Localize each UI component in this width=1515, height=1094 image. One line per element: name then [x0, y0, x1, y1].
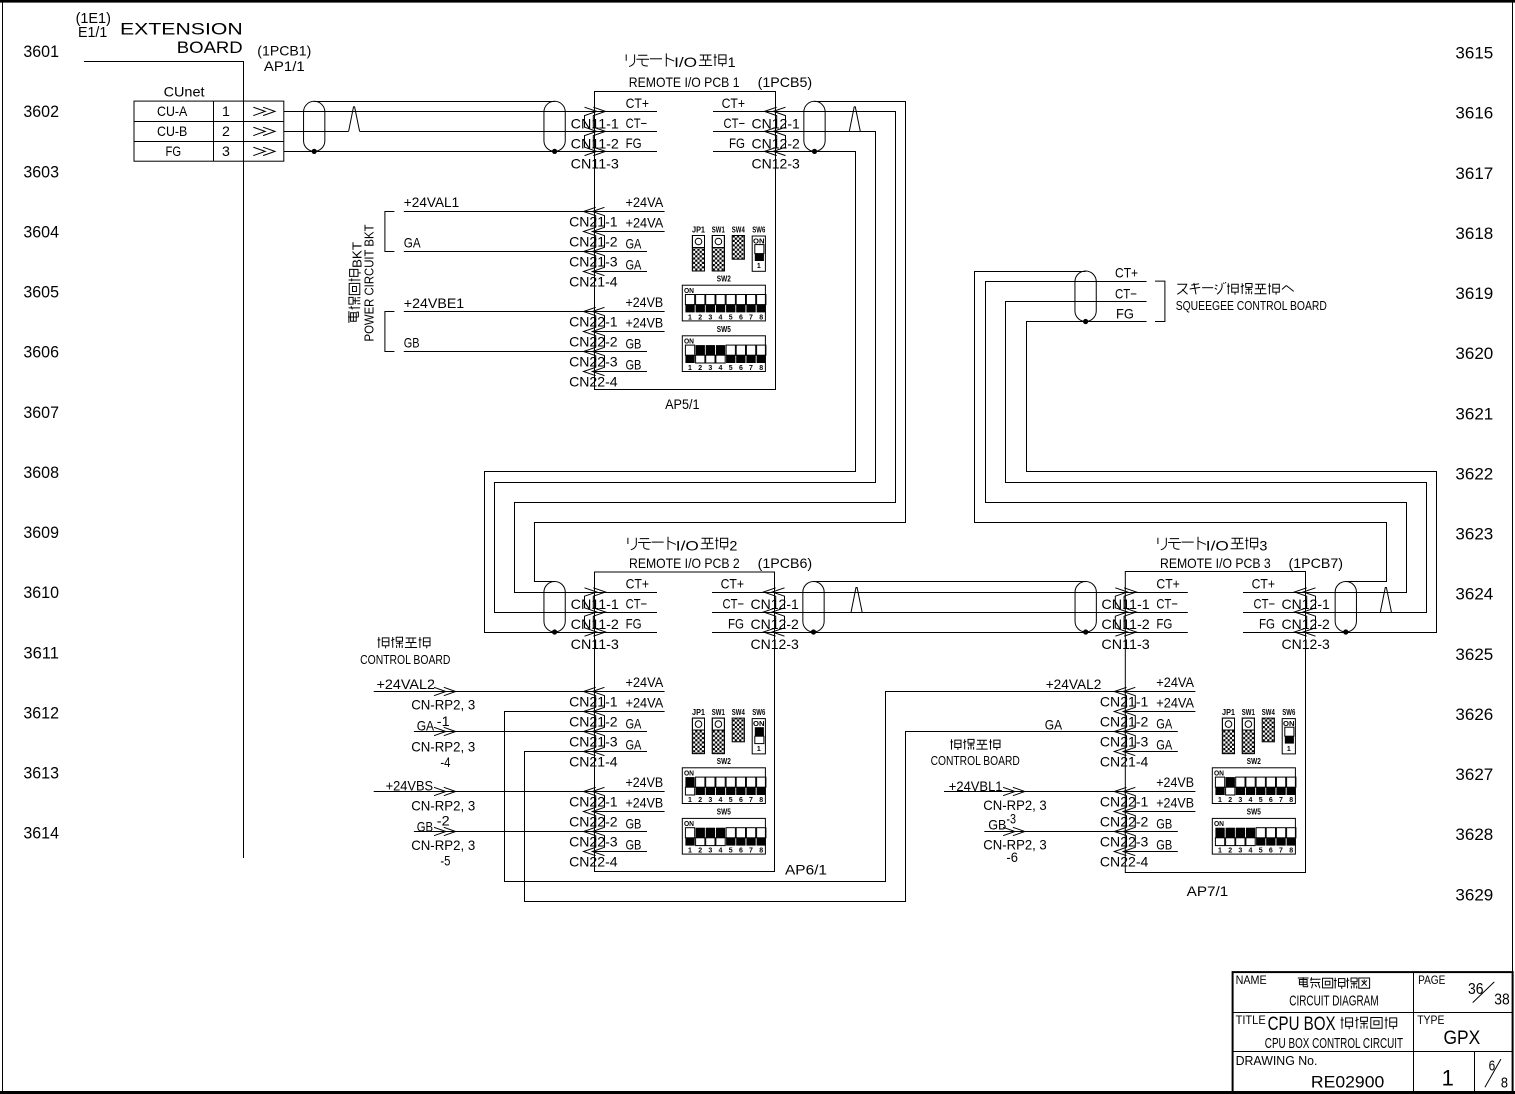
svg-text:8: 8 [759, 848, 763, 855]
svg-text:2: 2 [729, 538, 737, 554]
svg-text:CT+: CT+ [722, 95, 745, 111]
svg-text:NAME: NAME [1236, 973, 1267, 987]
svg-text:CT−: CT− [626, 596, 648, 612]
connector CN22 PCB1 [592, 307, 604, 375]
wire CT- PCB2 CN12 to PCB3 CN11 [775, 612, 1126, 614]
svg-text:GA: GA [417, 717, 435, 733]
svg-text:-5: -5 [440, 853, 450, 869]
svg-text:3607: 3607 [23, 403, 59, 422]
svg-text:3614: 3614 [23, 824, 59, 843]
svg-text:AP5/1: AP5/1 [665, 396, 700, 412]
title block frame [1233, 972, 1513, 1093]
svg-text:CN21-3: CN21-3 [569, 254, 618, 270]
twisted pair symbol [851, 611, 862, 613]
svg-text:CT+: CT+ [1115, 264, 1138, 280]
svg-text:3: 3 [1238, 797, 1242, 804]
svg-text:3616: 3616 [1455, 104, 1493, 123]
svg-text:CN12-1: CN12-1 [751, 596, 800, 612]
rotated label POWER CIRCUIT BKT [362, 224, 376, 341]
svg-text:CU-B: CU-B [157, 123, 187, 139]
svg-text:CN22-4: CN22-4 [569, 374, 618, 390]
wire +24VAL2 daisy PCB2 CN21-2 to PCB3 CN21-1 [505, 692, 1126, 882]
svg-text:CN22-1: CN22-1 [569, 314, 618, 330]
shield oval at PCB2 CN11 [544, 582, 565, 633]
svg-text:GA: GA [626, 715, 642, 731]
wire CU-B to CN11-2 [284, 131, 595, 133]
label squeegee control board (Japanese) [1177, 284, 1187, 294]
shield oval at PCB3 CN12 [1335, 582, 1356, 633]
svg-text:GB: GB [1156, 815, 1172, 831]
wire +24VBE1 to CN22-1 [404, 311, 595, 313]
label seigyo kiban (Japanese) PCB2 [378, 637, 389, 648]
wire CT+ PCB2 CN12 to PCB3 CN11 [775, 592, 1126, 594]
svg-text:GB: GB [626, 836, 642, 852]
wire +24VBS to PCB2 CN22-1 [374, 791, 595, 793]
label seigyo kiban (Japanese) PCB3 [950, 739, 961, 750]
svg-text:(1PCB5): (1PCB5) [758, 74, 813, 90]
svg-text:ON: ON [684, 821, 694, 828]
connector CN22 PCB3 [1123, 787, 1135, 855]
svg-text:7: 7 [749, 314, 753, 321]
svg-text:CN12-2: CN12-2 [752, 135, 801, 151]
svg-text:CN11-1: CN11-1 [571, 115, 620, 131]
shield oval at PCB2 CN12 [803, 582, 824, 633]
svg-text:I/O: I/O [674, 54, 697, 70]
rotated label dengen kairo BKT (Japanese) [348, 242, 364, 323]
svg-text:TITLE: TITLE [1236, 1013, 1266, 1027]
svg-text:3617: 3617 [1455, 164, 1493, 183]
svg-text:CN12-1: CN12-1 [1282, 596, 1331, 612]
svg-text:GA: GA [626, 736, 642, 752]
svg-text:CN12-3: CN12-3 [751, 636, 800, 652]
svg-text:CN-RP2, 3: CN-RP2, 3 [411, 738, 475, 754]
svg-text:+24VAL1: +24VAL1 [404, 194, 460, 210]
svg-text:SW4: SW4 [1262, 708, 1275, 717]
svg-text:5: 5 [729, 314, 733, 321]
svg-text:AP1/1: AP1/1 [264, 58, 305, 74]
connector CN21 PCB1 [592, 207, 604, 275]
svg-text:CN22-3: CN22-3 [569, 834, 618, 850]
bracket CN22 power group [385, 312, 395, 352]
connector CN11 PCB3 [1115, 588, 1127, 636]
wire +24VAL1 to CN21-1 [404, 211, 595, 213]
svg-text:7: 7 [749, 848, 753, 855]
svg-text:CN-RP2, 3: CN-RP2, 3 [411, 696, 475, 712]
remote I/O PCB1 box 1PCB5 [595, 92, 776, 390]
svg-text:ON: ON [684, 771, 694, 778]
svg-text:CN21-1: CN21-1 [569, 694, 618, 710]
cable shield wire [314, 101, 554, 103]
svg-text:ON: ON [684, 339, 694, 346]
svg-text:+24VB: +24VB [626, 774, 664, 790]
svg-text:CT+: CT+ [721, 576, 744, 592]
svg-text:SW1: SW1 [1242, 708, 1255, 717]
svg-text:5: 5 [729, 365, 733, 372]
remote I/O PCB3 box 1PCB7 [1125, 572, 1305, 873]
wire CT- PCB1 CN12 to PCB2 CN11 [495, 132, 876, 613]
title remote I/O kiban 2 (Japanese) [628, 538, 636, 550]
svg-text:REMOTE I/O PCB 2: REMOTE I/O PCB 2 [629, 555, 740, 571]
svg-text:ON: ON [1214, 821, 1224, 828]
svg-text:CN12-3: CN12-3 [1282, 636, 1331, 652]
svg-text:3628: 3628 [1455, 825, 1493, 844]
table output arrows [253, 107, 265, 115]
svg-text:+24VA: +24VA [1156, 674, 1194, 690]
svg-text:CPU BOX: CPU BOX [1268, 1014, 1336, 1035]
svg-text:CN12-2: CN12-2 [751, 616, 800, 632]
svg-text:FG: FG [728, 616, 744, 632]
svg-text:CT+: CT+ [626, 95, 649, 111]
svg-text:SW6: SW6 [1282, 708, 1295, 717]
svg-text:CN12-2: CN12-2 [1282, 616, 1331, 632]
svg-text:REMOTE I/O PCB 3: REMOTE I/O PCB 3 [1160, 555, 1271, 571]
svg-text:TYPE: TYPE [1417, 1013, 1444, 1027]
svg-text:6: 6 [1269, 848, 1273, 855]
svg-text:1: 1 [1442, 1065, 1454, 1090]
svg-text:2: 2 [1228, 848, 1232, 855]
svg-text:-6: -6 [1006, 849, 1018, 865]
svg-text:JP1: JP1 [1222, 708, 1236, 717]
svg-text:SW1: SW1 [712, 226, 725, 235]
twisted pair symbol [849, 131, 860, 133]
svg-text:3602: 3602 [23, 102, 59, 121]
svg-text:3625: 3625 [1455, 645, 1493, 664]
svg-text:CN22-4: CN22-4 [1100, 854, 1149, 870]
svg-text:CPU BOX CONTROL CIRCUIT: CPU BOX CONTROL CIRCUIT [1265, 1035, 1403, 1052]
CN21 internal stubs PCB3 [1125, 691, 1195, 693]
svg-text:BOARD: BOARD [177, 38, 243, 57]
svg-text:+24VB: +24VB [626, 315, 664, 331]
svg-text:GB: GB [404, 334, 420, 350]
svg-text:RE02900: RE02900 [1311, 1072, 1384, 1091]
svg-text:1: 1 [1287, 746, 1291, 753]
wire CU-A to CN11-1 [284, 111, 595, 113]
svg-text:CT−: CT− [724, 115, 746, 131]
CN11 internal stubs PCB1 [595, 111, 658, 113]
svg-text:3626: 3626 [1455, 705, 1493, 724]
svg-text:4: 4 [1249, 848, 1253, 855]
svg-text:1: 1 [222, 103, 230, 119]
svg-text:(1PCB6): (1PCB6) [758, 555, 813, 571]
CN12 internal stubs PCB3 [1243, 592, 1306, 594]
svg-text:3624: 3624 [1455, 585, 1493, 604]
shield wire PCB1-PCB2 [535, 102, 906, 582]
svg-text:EXTENSION: EXTENSION [120, 19, 243, 38]
svg-text:+24VA: +24VA [626, 215, 664, 231]
svg-text:7: 7 [749, 797, 753, 804]
svg-text:7: 7 [749, 365, 753, 372]
svg-text:3629: 3629 [1455, 885, 1493, 904]
svg-text:3601: 3601 [23, 42, 59, 61]
wire GB to PCB3 CN22-3 [984, 831, 1125, 833]
bracket squeegee cable [1155, 281, 1165, 321]
svg-text:CT−: CT− [1115, 285, 1137, 301]
svg-text:CN21-2: CN21-2 [1100, 714, 1149, 730]
svg-text:CT−: CT− [1254, 596, 1276, 612]
svg-text:3612: 3612 [23, 703, 59, 722]
svg-text:8: 8 [759, 314, 763, 321]
svg-text:CUnet: CUnet [164, 83, 205, 99]
svg-text:+24VB: +24VB [626, 294, 664, 310]
svg-text:1: 1 [688, 797, 692, 804]
svg-text:SW4: SW4 [732, 226, 745, 235]
svg-text:CN22-4: CN22-4 [569, 854, 618, 870]
svg-text:6: 6 [739, 314, 743, 321]
svg-text:SW4: SW4 [732, 708, 745, 717]
svg-text:DRAWING No.: DRAWING No. [1236, 1053, 1318, 1068]
svg-text:ON: ON [1214, 771, 1224, 778]
svg-text:5: 5 [1259, 848, 1263, 855]
svg-text:2: 2 [222, 123, 230, 139]
svg-text:CN21-4: CN21-4 [1100, 754, 1149, 770]
svg-text:GA: GA [1156, 715, 1172, 731]
svg-text:GA: GA [1156, 736, 1172, 752]
CN21 internal stubs PCB2 [595, 691, 665, 693]
svg-text:2: 2 [1228, 797, 1232, 804]
svg-text:8: 8 [1289, 797, 1293, 804]
svg-text:+24VB: +24VB [626, 795, 664, 811]
svg-text:GB: GB [626, 815, 642, 831]
svg-text:3610: 3610 [23, 583, 59, 602]
svg-text:SW1: SW1 [712, 708, 725, 717]
svg-text:3622: 3622 [1455, 464, 1493, 483]
svg-text:3618: 3618 [1455, 224, 1493, 243]
svg-text:4: 4 [719, 314, 723, 321]
svg-text:AP7/1: AP7/1 [1187, 883, 1229, 899]
svg-text:1: 1 [688, 848, 692, 855]
connector CN21 PCB2 [592, 687, 604, 755]
svg-text:CN21-4: CN21-4 [569, 754, 618, 770]
connector CN11 PCB1 [585, 107, 597, 155]
svg-text:REMOTE I/O PCB 1: REMOTE I/O PCB 1 [629, 74, 740, 90]
svg-text:CT+: CT+ [1156, 576, 1179, 592]
svg-text:4: 4 [1249, 797, 1253, 804]
svg-text:5: 5 [1259, 797, 1263, 804]
twisted pair symbol [1380, 611, 1391, 613]
svg-text:CN22-1: CN22-1 [1100, 794, 1149, 810]
wire GA daisy PCB2 CN21-4 to PCB3 CN21-3 [525, 732, 1126, 902]
svg-text:CN22-2: CN22-2 [569, 334, 618, 350]
CN11 internal stubs PCB3 [1125, 592, 1188, 594]
svg-text:+24VAL2: +24VAL2 [1046, 676, 1102, 692]
svg-text:1: 1 [728, 54, 736, 70]
svg-text:CU-A: CU-A [157, 103, 188, 119]
svg-text:3: 3 [708, 314, 712, 321]
svg-text:3: 3 [1259, 538, 1267, 554]
shield wire PCB2-PCB3 [814, 581, 1086, 583]
CN22 internal stubs PCB2 [595, 791, 665, 793]
wire GB to PCB2 CN22-3 [414, 831, 595, 833]
svg-text:CN12-1: CN12-1 [752, 115, 801, 131]
svg-text:I/O: I/O [1206, 538, 1229, 554]
svg-text:3627: 3627 [1455, 765, 1493, 784]
junction dot shield-FG [312, 149, 317, 154]
svg-text:3608: 3608 [23, 463, 59, 482]
title remote I/O kiban 3 (Japanese) [1158, 538, 1166, 550]
svg-text:CN22-3: CN22-3 [569, 354, 618, 370]
svg-text:1: 1 [688, 365, 692, 372]
svg-text:CN11-3: CN11-3 [571, 636, 620, 652]
connector CN12 PCB3 [1303, 588, 1315, 636]
svg-text:FG: FG [626, 135, 642, 151]
svg-text:GA: GA [1045, 717, 1063, 733]
svg-text:3611: 3611 [23, 643, 59, 662]
wire FG PCB2 CN12 to PCB3 CN11 [775, 632, 1126, 634]
svg-text:CN11-1: CN11-1 [571, 596, 620, 612]
CN12 internal stubs PCB2 [712, 592, 775, 594]
svg-text:3: 3 [708, 848, 712, 855]
svg-text:CN11-1: CN11-1 [1101, 596, 1150, 612]
CUnet terminal table [134, 101, 284, 161]
svg-text:CN12-3: CN12-3 [752, 155, 801, 171]
svg-text:3606: 3606 [23, 343, 59, 362]
svg-text:4: 4 [719, 365, 723, 372]
svg-text:2: 2 [698, 314, 702, 321]
svg-text:3: 3 [708, 797, 712, 804]
CN22 internal stubs PCB3 [1125, 791, 1195, 793]
svg-text:-3: -3 [1006, 811, 1016, 827]
svg-text:-2: -2 [437, 813, 450, 829]
svg-text:GA: GA [404, 235, 421, 251]
svg-text:CN21-1: CN21-1 [1100, 694, 1149, 710]
svg-text:+24VB: +24VB [1156, 774, 1194, 790]
svg-text:CN21-4: CN21-4 [569, 274, 618, 290]
connector CN12 PCB2 [772, 588, 784, 636]
svg-text:38: 38 [1494, 992, 1510, 1009]
svg-text:CONTROL BOARD: CONTROL BOARD [360, 653, 450, 667]
svg-text:I/O: I/O [676, 538, 699, 554]
remote I/O PCB2 box 1PCB6 [595, 572, 775, 872]
connector CN12 PCB1 [773, 107, 785, 155]
svg-text:5: 5 [729, 797, 733, 804]
svg-text:3623: 3623 [1455, 525, 1493, 544]
junction dot shield-FG [552, 149, 557, 154]
svg-text:FG: FG [1116, 305, 1134, 321]
svg-text:+24VB: +24VB [1156, 795, 1194, 811]
svg-text:SW5: SW5 [717, 325, 731, 334]
svg-text:8: 8 [1501, 1074, 1508, 1091]
svg-text:CN22-2: CN22-2 [569, 814, 618, 830]
title denki kairo senzu (Japanese) [1298, 977, 1309, 987]
svg-text:3: 3 [222, 143, 230, 159]
svg-text:7: 7 [1279, 848, 1283, 855]
svg-text:-4: -4 [440, 754, 450, 770]
connector CN11 PCB2 [585, 588, 597, 636]
svg-text:3621: 3621 [1455, 404, 1493, 423]
svg-text:3: 3 [708, 365, 712, 372]
wire FG to CN11-3 [284, 151, 595, 153]
svg-text:6: 6 [739, 365, 743, 372]
svg-text:6: 6 [739, 848, 743, 855]
svg-text:ON: ON [753, 721, 765, 728]
svg-text:8: 8 [1289, 848, 1293, 855]
svg-text:CN21-3: CN21-3 [1100, 734, 1149, 750]
svg-text:+24VA: +24VA [626, 674, 664, 690]
svg-text:CT−: CT− [1156, 596, 1178, 612]
svg-text:2: 2 [698, 797, 702, 804]
CN11 internal stubs PCB2 [595, 592, 658, 594]
svg-text:CN22-1: CN22-1 [569, 794, 618, 810]
wire GB to CN22-3 [404, 351, 595, 353]
svg-text:3604: 3604 [23, 222, 59, 241]
svg-text:(1PCB7): (1PCB7) [1289, 555, 1344, 571]
svg-text:3620: 3620 [1455, 344, 1493, 363]
svg-text:CN11-2: CN11-2 [571, 135, 620, 151]
svg-text:(1PCB1): (1PCB1) [257, 42, 311, 58]
wire +24VAL2 to PCB2 CN21-1 [374, 691, 595, 693]
svg-text:+24VAL2: +24VAL2 [377, 676, 436, 692]
svg-text:GB: GB [988, 816, 1006, 832]
svg-text:1: 1 [1218, 848, 1222, 855]
svg-text:JP1: JP1 [692, 226, 706, 235]
svg-text:ON: ON [684, 288, 694, 295]
svg-text:GB: GB [626, 335, 642, 351]
svg-text:GB: GB [626, 356, 642, 372]
svg-text:2: 2 [698, 848, 702, 855]
svg-text:SW5: SW5 [717, 808, 731, 817]
svg-text:3619: 3619 [1455, 284, 1493, 303]
wire FG PCB1 CN12 to PCB2 CN11 [485, 152, 856, 633]
svg-text:CN22-3: CN22-3 [1100, 834, 1149, 850]
svg-text:PAGE: PAGE [1418, 973, 1445, 987]
connector CN22 PCB2 [592, 787, 604, 855]
svg-text:CN21-2: CN21-2 [569, 234, 618, 250]
svg-text:7: 7 [1279, 797, 1283, 804]
svg-text:POWER CIRCUIT BKT: POWER CIRCUIT BKT [362, 224, 376, 341]
svg-text:5: 5 [729, 848, 733, 855]
wire GA to CN21-3 [404, 251, 595, 253]
bracket CN21 power group [385, 212, 395, 252]
svg-text:SW6: SW6 [752, 708, 765, 717]
svg-text:-1: -1 [437, 713, 450, 729]
svg-text:SW5: SW5 [1247, 808, 1261, 817]
svg-text:SW2: SW2 [1247, 757, 1261, 766]
svg-text:CN11-3: CN11-3 [1101, 636, 1150, 652]
svg-text:GPX: GPX [1444, 1028, 1481, 1049]
svg-text:+24VA: +24VA [1156, 695, 1194, 711]
svg-text:8: 8 [759, 365, 763, 372]
svg-text:FG: FG [1156, 616, 1172, 632]
svg-text:SQUEEGEE CONTROL BOARD: SQUEEGEE CONTROL BOARD [1176, 299, 1327, 313]
svg-text:+24VBE1: +24VBE1 [404, 295, 465, 311]
connector CN21 PCB3 [1123, 687, 1135, 755]
svg-text:GB: GB [417, 819, 433, 835]
shield oval at PCB3 CN11 [1075, 582, 1096, 633]
svg-text:1: 1 [757, 263, 761, 270]
shield oval at squeegee [1075, 271, 1096, 322]
svg-text:CN-RP2, 3: CN-RP2, 3 [411, 798, 475, 814]
CN12 internal stubs PCB1 [713, 111, 776, 113]
svg-text:2: 2 [698, 365, 702, 372]
svg-text:CN11-3: CN11-3 [571, 155, 620, 171]
svg-text:CN21-1: CN21-1 [569, 214, 618, 230]
svg-text:1: 1 [688, 314, 692, 321]
CN22 internal stubs PCB1 [595, 311, 665, 313]
svg-text:SW2: SW2 [717, 275, 731, 284]
svg-text:3613: 3613 [23, 764, 59, 783]
svg-text:FG: FG [1259, 616, 1275, 632]
svg-text:1: 1 [757, 746, 761, 753]
svg-text:CN11-2: CN11-2 [571, 616, 620, 632]
wire FG PCB3 CN12 to squeegee [1027, 322, 1437, 633]
svg-text:CIRCUIT DIAGRAM: CIRCUIT DIAGRAM [1289, 992, 1378, 1009]
svg-text:1: 1 [1218, 797, 1222, 804]
svg-text:3609: 3609 [23, 523, 59, 542]
svg-text:4: 4 [719, 797, 723, 804]
svg-text:36: 36 [1468, 981, 1484, 998]
svg-text:CT−: CT− [626, 115, 648, 131]
wire +24VBL1 to PCB3 CN22-1 [944, 791, 1125, 793]
